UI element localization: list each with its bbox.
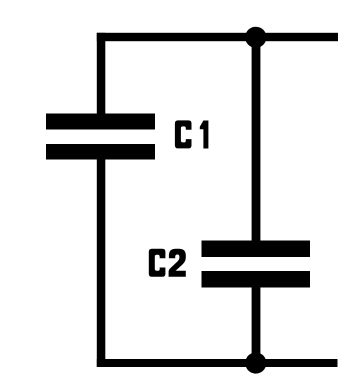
wire: right vertical, top segment from top bus to C2 — [252, 33, 261, 241]
capacitor C1 — [46, 114, 155, 160]
wire: left vertical, top segment down to C1 — [97, 33, 106, 115]
node: bottom junction dot — [245, 352, 266, 373]
wire: top horizontal bus — [97, 33, 338, 41]
node: top junction dot — [245, 27, 266, 48]
capacitor C2 — [202, 241, 311, 288]
wire: right vertical, bottom segment from C2 to bottom bus — [252, 287, 261, 367]
wire: bottom horizontal bus — [97, 359, 338, 367]
label C1 — [175, 120, 209, 148]
wire: left vertical, bottom segment from C1 to bottom bus — [97, 159, 106, 368]
label C2 — [149, 249, 186, 277]
